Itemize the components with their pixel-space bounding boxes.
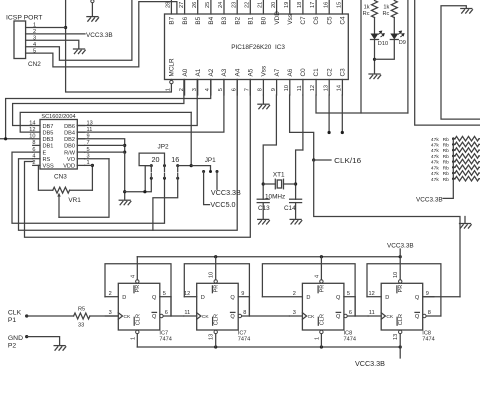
svg-text:1k: 1k bbox=[383, 4, 389, 10]
IC8a clock triangle bbox=[302, 313, 306, 319]
IC7b clock triangle bbox=[197, 313, 201, 319]
svg-text:P2: P2 bbox=[8, 343, 17, 350]
svg-text:A3: A3 bbox=[221, 68, 228, 76]
svg-text:PR: PR bbox=[398, 285, 404, 293]
svg-text:CLR: CLR bbox=[214, 314, 220, 325]
svg-text:18: 18 bbox=[297, 2, 303, 8]
wire IC3 pin3 to CN3 DB6 bbox=[77, 80, 197, 126]
svg-text:10: 10 bbox=[209, 272, 215, 278]
IC3 bottom pin 5 stub bbox=[223, 80, 225, 96]
svg-text:9: 9 bbox=[426, 291, 429, 297]
svg-text:1: 1 bbox=[130, 337, 136, 340]
IC7a pin 3 (CK) stub bbox=[105, 315, 118, 317]
JP2 bottom pin col1 bbox=[150, 177, 153, 180]
IC3 top pin 18 stub bbox=[302, 0, 304, 14]
svg-text:22: 22 bbox=[245, 2, 251, 8]
svg-text:9: 9 bbox=[241, 291, 244, 297]
IC IC3 PIC18F26K20 body bbox=[165, 14, 349, 80]
svg-text:A7: A7 bbox=[274, 68, 281, 76]
svg-text:JP2: JP2 bbox=[158, 144, 169, 151]
junction Rb bus row 3 bbox=[452, 149, 455, 152]
svg-text:VO: VO bbox=[67, 157, 76, 163]
connector CN2 ICSP body bbox=[14, 21, 26, 59]
wire P1 to R5 bbox=[27, 315, 74, 317]
svg-text:VCC5.0: VCC5.0 bbox=[210, 200, 235, 209]
flip-flop IC8b body bbox=[381, 283, 423, 330]
junction Rb bus row 6 bbox=[452, 166, 455, 169]
IC3 bottom pin 9 stub bbox=[276, 80, 278, 96]
svg-text:11: 11 bbox=[369, 310, 375, 316]
junction FF4 CLR bbox=[399, 345, 402, 348]
svg-text:CK: CK bbox=[308, 314, 316, 320]
wire wrap row3 to IC3 pin7 (A5) bbox=[25, 80, 251, 238]
svg-text:DB0: DB0 bbox=[64, 144, 75, 150]
JP1 pin right bbox=[216, 170, 219, 173]
IC3 top pin 19 stub bbox=[289, 0, 291, 14]
svg-text:A1: A1 bbox=[195, 68, 202, 76]
CN3 left pin 4 (RS) stub bbox=[33, 158, 40, 160]
JP2 bottom pin col2 bbox=[163, 177, 166, 180]
svg-text:D10: D10 bbox=[378, 41, 388, 47]
svg-text:47k: 47k bbox=[431, 143, 439, 149]
wire Q4 output to right column bbox=[423, 296, 460, 298]
IC8a pin 3 (CK) stub bbox=[289, 315, 302, 317]
wire P2 to ground bbox=[27, 337, 60, 346]
IC3 top pin 22 stub bbox=[249, 0, 251, 14]
wire VDD row to column bbox=[85, 164, 93, 166]
ground at P2 bbox=[54, 345, 65, 347]
crystal XT1 symbol bbox=[263, 183, 275, 185]
CN3 left pin 2 (VSS) stub bbox=[33, 164, 40, 166]
JP1 pin left bbox=[202, 170, 205, 173]
svg-text:VCC3.3B: VCC3.3B bbox=[86, 32, 113, 39]
node P1 CLK input bbox=[25, 314, 28, 317]
wire CN2 pin2 to VCC3.3B bbox=[26, 33, 85, 35]
wire PR rail riser to VCC label bbox=[399, 249, 401, 257]
svg-text:Q: Q bbox=[415, 314, 420, 320]
svg-text:CLR: CLR bbox=[319, 314, 325, 325]
wire Q1 to CK2 link bbox=[171, 297, 184, 316]
svg-text:6: 6 bbox=[165, 310, 168, 316]
wire IC3 pin13 (C2) stub end bbox=[328, 95, 330, 133]
resistor Rc right 1k bbox=[391, 1, 397, 18]
svg-text:6: 6 bbox=[231, 88, 237, 91]
IC3 top pin 15 stub bbox=[341, 0, 343, 14]
svg-text:VDD: VDD bbox=[274, 11, 281, 25]
svg-text:4: 4 bbox=[314, 275, 320, 278]
IC8b Qbar feedback wrap to D bbox=[367, 264, 441, 316]
junction FF2 CLR bbox=[214, 345, 217, 348]
CN3 right pin 5 (R/W) stub bbox=[77, 151, 84, 153]
svg-text:XT1: XT1 bbox=[273, 171, 285, 178]
IC7a pin 5 (Q) stub bbox=[160, 296, 171, 298]
CN3 right pin 1 (VDD) stub bbox=[77, 164, 84, 166]
svg-text:VCC3.3B: VCC3.3B bbox=[355, 359, 385, 368]
svg-text:SC1602/2004: SC1602/2004 bbox=[41, 114, 75, 120]
IC7b pin 12 (D) stub bbox=[184, 296, 196, 298]
flip-flop IC7b body bbox=[197, 283, 239, 330]
svg-text:VCC3.3B: VCC3.3B bbox=[416, 196, 443, 203]
wire VR1 right end to VDD column bbox=[70, 189, 93, 191]
wire CN2 pin3 to ground bbox=[26, 40, 79, 48]
svg-text:10: 10 bbox=[393, 272, 399, 278]
svg-text:C1: C1 bbox=[313, 68, 320, 77]
wire VR1 wiper to VO bbox=[59, 159, 109, 218]
ground at CN2 pin3 bbox=[74, 48, 85, 50]
wire crystal right riser bbox=[296, 150, 303, 199]
IC3 bottom pin 12 stub bbox=[315, 80, 317, 96]
svg-text:A6: A6 bbox=[287, 68, 294, 76]
IC7a pin 4 (PR) with bubble bbox=[136, 280, 139, 283]
svg-text:CN3: CN3 bbox=[54, 173, 67, 180]
LED D10 bbox=[371, 34, 379, 40]
IC7b pin 9 (Q) stub bbox=[238, 296, 249, 298]
wire DB2 row to ground column bbox=[77, 139, 124, 152]
resistor Rb 2 47k bbox=[455, 142, 479, 147]
svg-text:1k: 1k bbox=[364, 4, 370, 10]
IC8b pin 8 (Qbar) with bubble bbox=[423, 314, 426, 317]
IC8a pin 1 (CLR) with bubble bbox=[320, 330, 323, 333]
wire CLK/16 stub bbox=[314, 159, 331, 161]
svg-text:8: 8 bbox=[258, 88, 264, 91]
node P2 GND bbox=[25, 335, 28, 338]
svg-text:12: 12 bbox=[368, 291, 374, 297]
IC7b pin 10 (PR) with bubble bbox=[214, 280, 217, 283]
svg-text:B6: B6 bbox=[182, 16, 189, 24]
svg-text:Q: Q bbox=[152, 314, 157, 320]
CN3 right pin 11 (DB4) stub bbox=[77, 131, 84, 133]
IC3 top pin 24 stub bbox=[223, 0, 225, 14]
svg-text:2: 2 bbox=[109, 291, 112, 297]
IC3 top pin 26 stub bbox=[197, 0, 199, 14]
wire D9 cathode to junction bbox=[375, 40, 395, 60]
svg-text:15: 15 bbox=[337, 2, 343, 8]
wire IC3 pin10 jog to CLK/16 column bbox=[290, 95, 314, 160]
IC3 bottom pin 10 stub bbox=[289, 80, 291, 96]
svg-text:VR1: VR1 bbox=[68, 197, 81, 204]
svg-text:1: 1 bbox=[166, 88, 172, 91]
svg-text:CK: CK bbox=[202, 314, 210, 320]
IC8b clock triangle bbox=[381, 313, 385, 319]
svg-text:25: 25 bbox=[205, 2, 211, 8]
svg-text:7474: 7474 bbox=[344, 337, 356, 343]
svg-text:6: 6 bbox=[349, 310, 352, 316]
svg-text:VDD: VDD bbox=[63, 164, 75, 170]
wire Q3 to CK4 link bbox=[355, 297, 368, 316]
svg-text:47k: 47k bbox=[431, 160, 439, 166]
CN3 right pin 9 (DB2) stub bbox=[77, 138, 84, 140]
wire DB3 row to left edge bbox=[0, 138, 33, 140]
svg-text:PR: PR bbox=[319, 285, 325, 293]
ground stub on CLK/16 run bbox=[464, 217, 466, 224]
wire R/W to ground rail bbox=[85, 152, 125, 200]
ground near right edge bbox=[460, 223, 471, 225]
CN3 left pin 6 (E) stub bbox=[33, 151, 40, 153]
svg-text:23: 23 bbox=[231, 2, 237, 8]
svg-text:47k: 47k bbox=[431, 148, 439, 154]
svg-text:R5: R5 bbox=[78, 306, 85, 312]
CN3 left pin 10 (DB3) stub bbox=[33, 138, 40, 140]
svg-text:Q: Q bbox=[152, 295, 157, 301]
junction Rb bus row 2 bbox=[452, 143, 455, 146]
JP1 pin center bbox=[209, 170, 212, 173]
wire D10 cathode down bbox=[374, 40, 376, 74]
resistor Rc left 1k bbox=[372, 1, 378, 18]
resistor Rb 4 47k bbox=[455, 154, 479, 159]
capacitor C13 bbox=[257, 198, 269, 200]
junction JP1 feed bbox=[190, 164, 193, 167]
svg-text:33: 33 bbox=[78, 323, 84, 329]
CN3 left pin 12 (DB5) stub bbox=[33, 131, 40, 133]
junction LED common bbox=[373, 58, 376, 61]
IC3 top pin 20 stub bbox=[276, 0, 278, 14]
svg-text:Vss: Vss bbox=[287, 14, 294, 25]
svg-text:D9: D9 bbox=[399, 40, 406, 46]
svg-text:16: 16 bbox=[323, 2, 329, 8]
svg-text:13: 13 bbox=[209, 334, 215, 340]
svg-text:RS: RS bbox=[43, 157, 51, 163]
IC7a pin 6 (Qbar) with bubble bbox=[160, 314, 163, 317]
wire JP2 top-right to JP1 junction bbox=[178, 165, 192, 167]
svg-text:Q: Q bbox=[336, 295, 341, 301]
wire E row wrap to JP2 center bbox=[12, 152, 165, 223]
IC3 bottom pin 8 stub bbox=[262, 80, 264, 96]
svg-text:9: 9 bbox=[271, 88, 277, 91]
IC7b pin 11 (CK) stub bbox=[184, 315, 197, 317]
IC3 pin8 Vss ground stub bbox=[262, 95, 264, 104]
svg-text:JP1: JP1 bbox=[205, 157, 216, 164]
junction Rb bus row 1 bbox=[452, 137, 455, 140]
IC7a clock triangle bbox=[118, 313, 122, 319]
svg-text:B0: B0 bbox=[261, 16, 268, 24]
svg-text:DB3: DB3 bbox=[43, 137, 54, 143]
junction FF3 PR bbox=[320, 255, 323, 258]
wire CLK/16 to FF4 Q output bbox=[314, 160, 460, 297]
svg-text:CN2: CN2 bbox=[28, 61, 41, 68]
svg-text:20: 20 bbox=[152, 155, 160, 164]
svg-text:DB6: DB6 bbox=[64, 124, 75, 130]
IC3 MCLR active-low bubble bbox=[170, 80, 173, 83]
svg-text:VCC3.3B: VCC3.3B bbox=[211, 188, 241, 197]
junction FF4 PR bbox=[399, 255, 402, 258]
IC7b pin 8 (Qbar) with bubble bbox=[238, 314, 241, 317]
ground at C13 bbox=[258, 218, 269, 220]
wire CN2 pin4 (PGD) up to top edge bbox=[26, 0, 132, 60]
IC3 top pin 28 stub bbox=[170, 0, 172, 14]
svg-text:12: 12 bbox=[310, 85, 316, 91]
svg-text:7: 7 bbox=[245, 88, 251, 91]
wire Q2 to CK3 link bbox=[249, 297, 289, 316]
wire IC3 pin5 to CN3 DB4 bbox=[77, 80, 224, 133]
junction JP2 ground rail bbox=[143, 190, 146, 193]
JP2 bottom pin col3 bbox=[176, 177, 179, 180]
svg-text:Rb: Rb bbox=[443, 165, 450, 171]
wire VDD column riser bbox=[91, 165, 93, 190]
svg-text:47k: 47k bbox=[431, 171, 439, 177]
svg-text:27: 27 bbox=[179, 2, 185, 8]
svg-text:CLK/16: CLK/16 bbox=[334, 156, 361, 165]
svg-text:C4: C4 bbox=[340, 16, 347, 25]
svg-text:B7: B7 bbox=[169, 16, 176, 24]
wire IC3 pin2 to CN3 DB7 bbox=[13, 80, 184, 126]
wire vertical right net A bbox=[415, 0, 480, 125]
junction R/W ground column bbox=[123, 151, 126, 154]
svg-text:CLR: CLR bbox=[135, 314, 141, 325]
svg-text:14: 14 bbox=[337, 85, 343, 91]
svg-text:PR: PR bbox=[135, 285, 141, 293]
flip-flop IC7a body bbox=[118, 283, 160, 330]
IC3 bottom pin 1 stub bbox=[170, 79, 172, 82]
wire VSS to VR1 left end bbox=[38, 165, 52, 190]
svg-text:C6: C6 bbox=[313, 16, 320, 25]
junction FF3 CLR bbox=[320, 345, 323, 348]
wire vertical LED drive column bbox=[407, 0, 409, 113]
svg-text:D: D bbox=[122, 295, 126, 301]
ground LED common bbox=[369, 73, 380, 75]
svg-text:CLK: CLK bbox=[8, 309, 22, 316]
IC8a pin 2 (D) stub bbox=[262, 296, 302, 298]
resistor Rb 7 47k bbox=[455, 171, 479, 176]
CN3 right pin 3 (VO) stub bbox=[77, 158, 84, 160]
svg-text:C3: C3 bbox=[340, 68, 347, 77]
connector CN3 LCD body bbox=[40, 120, 77, 170]
wire JP2 top strap bracket bbox=[139, 153, 164, 166]
wire IC3 pin4 to CN3 DB3 bbox=[6, 80, 211, 139]
wire CN2 pin1 to MCLR column bbox=[26, 27, 66, 29]
IC3 top pin 16 stub bbox=[328, 0, 330, 14]
wire JP1 left pin to VCC5.0 label bbox=[204, 172, 210, 205]
svg-text:47k: 47k bbox=[431, 154, 439, 160]
svg-text:5: 5 bbox=[163, 291, 166, 297]
svg-text:10: 10 bbox=[284, 85, 290, 91]
wire PR rail VCC3.3B bbox=[137, 256, 400, 258]
IC8a Qbar feedback wrap to D bbox=[262, 264, 355, 316]
svg-text:8: 8 bbox=[428, 310, 431, 316]
capacitor C14 bbox=[290, 198, 302, 200]
svg-text:28: 28 bbox=[166, 2, 172, 8]
resistor Rb 5 47k bbox=[455, 159, 479, 164]
svg-text:B1: B1 bbox=[248, 16, 255, 24]
wire CLR rail drop to VCC label bbox=[399, 347, 401, 358]
junction crystal right bbox=[294, 182, 297, 185]
IC7a Qbar feedback wrap to D bbox=[105, 264, 171, 316]
svg-text:Rb: Rb bbox=[443, 148, 450, 154]
resistor Rb 3 47k bbox=[455, 148, 479, 153]
junction Rb bus row 7 bbox=[452, 172, 455, 175]
junction Rb bus row 4 bbox=[452, 155, 455, 158]
junction VDD row bbox=[91, 164, 94, 167]
svg-text:20: 20 bbox=[271, 2, 277, 8]
IC3 bottom pin 7 stub bbox=[249, 80, 251, 96]
svg-text:2: 2 bbox=[293, 291, 296, 297]
wire CLR rail bbox=[137, 346, 400, 348]
svg-text:7474: 7474 bbox=[422, 337, 434, 343]
svg-text:47k: 47k bbox=[431, 165, 439, 171]
svg-text:1: 1 bbox=[314, 337, 320, 340]
svg-text:Rb: Rb bbox=[443, 160, 450, 166]
IC8b pin 13 (CLR) with bubble bbox=[399, 330, 402, 333]
IC3 top pin 23 stub bbox=[236, 0, 238, 14]
svg-text:3: 3 bbox=[109, 310, 112, 316]
flip-flop IC8a body bbox=[302, 283, 344, 330]
resistor R5 33 bbox=[74, 313, 90, 319]
IC7a pin 2 (D) stub bbox=[105, 296, 118, 298]
svg-text:C13: C13 bbox=[258, 205, 270, 212]
svg-text:PIC18F26K20: PIC18F26K20 bbox=[231, 44, 272, 51]
svg-text:B3: B3 bbox=[221, 16, 228, 24]
resistor Rb 6 47k bbox=[455, 165, 479, 170]
svg-text:7474: 7474 bbox=[159, 337, 171, 343]
JP2 top pin col2 bbox=[163, 164, 166, 167]
junction Rb bus row 8 bbox=[452, 177, 455, 180]
wire DB5 row to JP1 riser line bbox=[20, 112, 191, 132]
svg-text:5: 5 bbox=[347, 291, 350, 297]
JP2 top pin col1 bbox=[150, 164, 153, 167]
svg-text:47k: 47k bbox=[431, 177, 439, 183]
wire JP2 top-left to ground rail bbox=[145, 166, 151, 192]
svg-text:D: D bbox=[306, 295, 310, 301]
svg-text:C2: C2 bbox=[326, 68, 333, 77]
IC8b pin 9 (Q) stub bbox=[423, 296, 434, 298]
IC3 bottom pin 11 stub bbox=[302, 80, 304, 96]
potentiometer VR1 bbox=[53, 187, 70, 193]
svg-text:4: 4 bbox=[130, 275, 136, 278]
svg-text:Rb: Rb bbox=[443, 171, 450, 177]
svg-text:3: 3 bbox=[293, 310, 296, 316]
IC8b pin 10 (PR) with bubble bbox=[399, 280, 402, 283]
ground top-left with pin bbox=[91, 0, 94, 3]
svg-text:17: 17 bbox=[310, 2, 316, 8]
wire RS row wrap to IC3 pin6 (A4) bbox=[19, 80, 238, 231]
wire VO row to wiper riser bbox=[85, 158, 109, 160]
svg-text:C0: C0 bbox=[300, 68, 307, 77]
IC3 top pin 27 stub bbox=[184, 0, 186, 14]
svg-text:Rb: Rb bbox=[443, 177, 450, 183]
svg-text:21: 21 bbox=[258, 2, 264, 8]
IC3 top pin 17 stub bbox=[315, 0, 317, 14]
IC7b pin 13 (CLR) with bubble bbox=[214, 330, 217, 333]
CN3 right pin 13 (DB6) stub bbox=[77, 125, 84, 127]
svg-text:D: D bbox=[201, 295, 205, 301]
wire JP1 right pin to VCC3.3B label bbox=[216, 172, 218, 190]
wire riser to JP1 junction from bundle bbox=[190, 112, 192, 165]
IC8b pin 11 (CK) stub bbox=[368, 315, 381, 317]
svg-text:Q: Q bbox=[336, 314, 341, 320]
svg-text:8: 8 bbox=[32, 140, 35, 146]
LED D9 bbox=[393, 18, 395, 34]
ground top right bbox=[461, 8, 472, 10]
svg-text:E: E bbox=[43, 150, 47, 156]
svg-text:13: 13 bbox=[393, 334, 399, 340]
svg-text:DB4: DB4 bbox=[64, 130, 75, 136]
IC3 bottom pin 3 stub bbox=[197, 80, 199, 96]
IC8a pin 5 (Q) stub bbox=[344, 296, 355, 298]
svg-text:VSS: VSS bbox=[43, 164, 54, 170]
wire DB0 row to ground column bbox=[85, 144, 125, 146]
IC3 bottom pin 2 stub bbox=[184, 80, 186, 96]
wire MCLR net to CN2 pin1 column bbox=[66, 0, 172, 92]
svg-text:7474: 7474 bbox=[238, 337, 250, 343]
wire JP2 bottom-right wrap bbox=[153, 178, 178, 230]
svg-text:MCLR: MCLR bbox=[169, 58, 176, 76]
IC3 top pin 21 stub bbox=[262, 0, 264, 14]
junction crystal left bbox=[262, 182, 265, 185]
IC8a pin 6 (Qbar) with bubble bbox=[344, 314, 347, 317]
IC3 bottom pin 4 stub bbox=[210, 80, 212, 96]
wire right net B with top ground bbox=[441, 6, 480, 119]
svg-text:Rc: Rc bbox=[363, 11, 370, 17]
svg-text:19: 19 bbox=[284, 2, 290, 8]
